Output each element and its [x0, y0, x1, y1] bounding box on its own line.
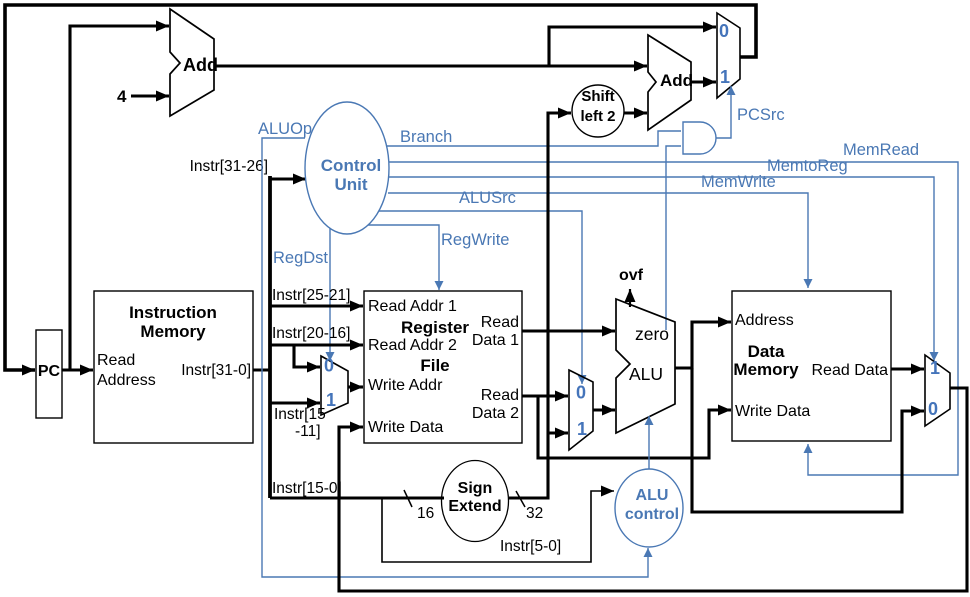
wire instruction bus vertical: [268, 176, 272, 498]
svg-text:Data 1: Data 1: [472, 332, 519, 349]
wire Sign Extend output up to Shift left 2: [509, 113, 571, 498]
svg-text:Extend: Extend: [448, 498, 501, 515]
wire constant 4 to Add1 bottom input: [131, 94, 169, 97]
wire Instr[20-16] drop to RegDst mux input 0: [294, 345, 320, 367]
node Instr[20-16] to Read Addr 2: [270, 343, 363, 346]
svg-text:MemWrite: MemWrite: [701, 173, 776, 191]
svg-text:Instr[5-0]: Instr[5-0]: [500, 538, 561, 555]
wire RegWrite control signal to Register File: [368, 225, 439, 290]
wire Branch control signal to AND gate: [387, 131, 681, 146]
wire Read Data 2 to Data Memory Write Data: [538, 396, 731, 458]
svg-text:MemtoReg: MemtoReg: [767, 157, 848, 175]
svg-text:Instr[25-21]: Instr[25-21]: [272, 287, 350, 304]
svg-text:-11]: -11]: [295, 423, 321, 440]
svg-text:Read Addr 2: Read Addr 2: [368, 337, 457, 354]
svg-text:RegDst: RegDst: [273, 249, 328, 267]
svg-text:RegWrite: RegWrite: [441, 231, 509, 249]
svg-text:Read: Read: [97, 352, 135, 369]
wire RegDst control signal to RegDst mux: [329, 228, 331, 361]
shift left 2 unit: [572, 85, 624, 137]
wire Instr[31-0] from Instruction Memory to instruction bus: [253, 368, 271, 371]
svg-text:Branch: Branch: [400, 128, 452, 146]
ALU control unit: [615, 469, 683, 547]
svg-text:0: 0: [324, 356, 334, 376]
wire ALU result down to MemtoReg mux input 0: [692, 368, 924, 512]
wire Add2 output to PCSrc mux input 1: [691, 80, 716, 83]
adder Add2 (branch target): [648, 35, 693, 130]
data memory: [732, 291, 891, 441]
register file: [364, 291, 522, 443]
svg-text:Unit: Unit: [334, 175, 367, 194]
svg-text:Write Data: Write Data: [368, 419, 443, 436]
bit-width slash 32: [516, 491, 525, 507]
wire Add1 output (PC+4) to Add2 top input: [214, 64, 647, 67]
svg-text:ovf: ovf: [619, 267, 644, 284]
wire ALUSrc control signal to ALUSrc mux: [379, 211, 582, 384]
svg-text:Read Data: Read Data: [812, 362, 889, 379]
svg-text:Shift: Shift: [581, 88, 614, 105]
svg-text:Data: Data: [748, 342, 785, 361]
mux PCSrc: [717, 13, 740, 98]
wire sign-extended immediate to ALUSrc mux input 1: [548, 431, 568, 434]
wire PC-feedback from PCSrc mux output along top and left edges to PC input: [5, 5, 756, 370]
svg-text:Memory: Memory: [733, 360, 799, 379]
wire PCSrc from AND gate to PCSrc mux select: [716, 86, 731, 138]
svg-text:Instr[31-26]: Instr[31-26]: [190, 158, 268, 175]
svg-text:Instr[15-0]: Instr[15-0]: [272, 480, 342, 497]
svg-text:Write Addr: Write Addr: [368, 377, 443, 394]
svg-text:PC: PC: [38, 363, 61, 380]
svg-text:1: 1: [720, 67, 730, 87]
svg-text:Instr[31-0]: Instr[31-0]: [181, 362, 251, 379]
wire Read Data 1 to ALU top input: [522, 329, 615, 332]
svg-text:Read: Read: [481, 314, 519, 331]
svg-text:File: File: [420, 356, 449, 375]
svg-text:Instruction: Instruction: [129, 303, 217, 322]
PC register: [36, 330, 62, 418]
wire PC+4 branch up to PCSrc mux input 0: [549, 27, 716, 66]
svg-text:Read Addr 1: Read Addr 1: [368, 298, 457, 315]
svg-text:Control: Control: [321, 156, 381, 175]
svg-text:Read: Read: [481, 387, 519, 404]
wire MemtoReg mux output back to Register File Write Data: [339, 388, 967, 591]
svg-text:Add: Add: [183, 55, 218, 75]
wire ALUSrc mux output to ALU bottom input: [593, 408, 615, 411]
wire MemtoReg control signal to MemtoReg mux: [389, 177, 934, 361]
wire PC value up to Add1 top input: [70, 26, 169, 370]
wire Data Memory Read Data to MemtoReg mux input 1: [891, 367, 924, 370]
svg-text:ALU: ALU: [629, 364, 663, 384]
wire MemWrite control signal to Data Memory top: [388, 193, 808, 288]
svg-text:0: 0: [928, 399, 938, 419]
svg-text:1: 1: [577, 419, 587, 439]
AND gate for branch: [683, 122, 716, 154]
svg-text:Add: Add: [660, 71, 693, 90]
svg-text:Data 2: Data 2: [472, 405, 519, 422]
svg-text:4: 4: [117, 87, 127, 106]
ALU: [616, 299, 675, 433]
node Instr[25-21] to Read Addr 1: [270, 304, 363, 307]
svg-text:control: control: [625, 506, 679, 523]
svg-text:Memory: Memory: [140, 322, 206, 341]
control unit ellipse: [305, 102, 389, 234]
svg-text:Instr[15: Instr[15: [274, 406, 326, 423]
wire ALU result to Data Memory Address: [675, 322, 731, 368]
svg-text:Sign: Sign: [458, 480, 493, 497]
node Instr[15-0] to Sign Extend: [270, 496, 444, 499]
wire ALU control output to ALU: [648, 416, 650, 469]
svg-text:32: 32: [526, 505, 543, 522]
svg-text:PCSrc: PCSrc: [737, 106, 785, 124]
wire Read Data 2 to ALUSrc mux input 0: [522, 394, 568, 397]
svg-text:ALUSrc: ALUSrc: [459, 189, 516, 207]
bit-width slash 16: [404, 490, 412, 507]
wire RegDst mux output to Write Addr: [348, 385, 363, 388]
svg-text:zero: zero: [635, 324, 669, 344]
wire ALUOp control signal to ALU control: [262, 138, 648, 577]
svg-text:0: 0: [719, 21, 729, 41]
wire Instr[5-0] to ALU control: [382, 491, 614, 562]
svg-text:16: 16: [417, 505, 434, 522]
svg-text:0: 0: [576, 383, 586, 403]
mux ALUSrc: [569, 370, 593, 450]
mux MemtoReg: [925, 355, 950, 426]
wire ovf output arrow: [629, 289, 631, 307]
svg-text:Instr[20-16]: Instr[20-16]: [272, 325, 350, 342]
adder Add1 (PC+4): [170, 9, 218, 116]
svg-text:1: 1: [930, 358, 940, 378]
svg-text:MemRead: MemRead: [843, 141, 919, 159]
instruction memory: [94, 291, 253, 443]
node Instr[31-26] to Control Unit: [270, 177, 306, 180]
svg-text:Address: Address: [735, 312, 794, 329]
svg-text:Address: Address: [97, 372, 156, 389]
mux RegDst: [321, 356, 348, 416]
node Instr[15-11] to RegDst mux input 1: [270, 401, 320, 404]
svg-text:ALU: ALU: [636, 487, 669, 504]
svg-text:ALUOp: ALUOp: [258, 120, 312, 138]
sign extend unit: [442, 461, 509, 542]
svg-text:left 2: left 2: [580, 108, 615, 125]
svg-text:1: 1: [326, 390, 336, 410]
wire Shift left 2 output to Add2 bottom input: [624, 111, 647, 114]
wire PC output to Instruction Memory Read Address: [62, 368, 93, 371]
svg-text:Register: Register: [401, 318, 469, 337]
wire MemRead control signal to Data Memory bottom: [389, 162, 958, 475]
wire ALU zero to AND gate: [666, 146, 681, 330]
svg-text:Write Data: Write Data: [735, 403, 810, 420]
